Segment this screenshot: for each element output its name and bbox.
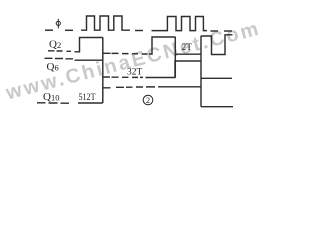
- Q6 low solid right: [201, 77, 232, 79]
- Q10 low solid under 512T: [78, 102, 103, 104]
- svg-text:Q6: Q6: [47, 61, 59, 73]
- phi row dashed baseline left dash A: [45, 29, 53, 31]
- svg-text:Q2: Q2: [49, 39, 61, 51]
- svg-text:2: 2: [146, 95, 150, 105]
- circled 2 annotation: [143, 95, 153, 105]
- shared vertical edge at x=201 (Q2 rise / Q6 fall / Q10 fall): [200, 36, 202, 107]
- phi row dash D: [211, 30, 219, 32]
- Q2 low dashes after first pulse: [103, 52, 148, 55]
- Q6 low solid then dashes: [103, 76, 143, 78]
- Q2 third small pulse and fourth rise: [201, 35, 233, 55]
- Q6 high solid segment: [75, 59, 103, 61]
- svg-text:32T: 32T: [127, 68, 143, 78]
- Q10 high solid then dashes then solid: [103, 86, 155, 89]
- Q2 low solid under 2T: [176, 53, 201, 55]
- phi row dash B: [65, 29, 73, 31]
- Q10 high solid right: [158, 86, 201, 88]
- Q10 low dashes left: [37, 102, 69, 104]
- Q10 low solid right after fall: [201, 106, 233, 108]
- Q6 high dashes left: [45, 57, 74, 60]
- phi row dash E: [224, 30, 232, 32]
- shared vertical edge at x=102.8 (Q2 fall / Q6 fall / Q10 rise): [102, 37, 104, 103]
- svg-text:Q10: Q10: [43, 91, 59, 103]
- Q6 second pulse: [146, 61, 202, 78]
- phi clock pulse train 1: [81, 16, 130, 30]
- Q2 second pulse: [149, 37, 175, 54]
- svg-text:www.ChinaECNet.Com: www.ChinaECNet.Com: [3, 17, 263, 104]
- phi clock symbol: [56, 19, 60, 29]
- shared vertical edge at x=175.3 (Q2 fall / Q6 rise): [174, 37, 176, 78]
- svg-text:2T: 2T: [182, 43, 193, 53]
- svg-text:512T: 512T: [79, 93, 96, 103]
- phi row dash C: [135, 30, 143, 32]
- Q2 low dashes before pulse: [48, 50, 71, 53]
- phi clock pulse train 2: [152, 17, 208, 31]
- Q2 first pulse: [75, 38, 103, 52]
